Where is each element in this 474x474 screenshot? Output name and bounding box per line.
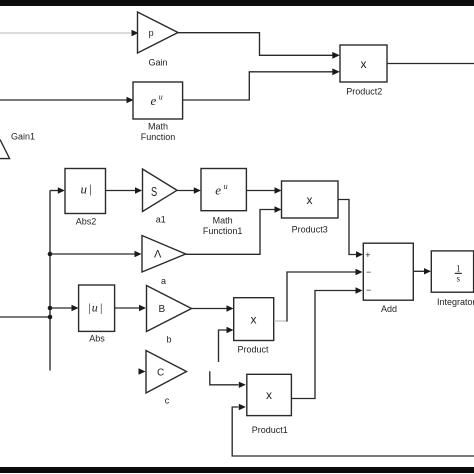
wire B output to Product input 1 [192,305,234,311]
wire bus to A [50,251,142,257]
svg-text:Product2: Product2 [346,87,382,97]
abs block Abs (|u|) [79,285,115,344]
wire Abs output to B [115,305,146,311]
gain block A (triangle lambda) [142,236,186,286]
junction dot A branch [48,252,53,257]
svg-text:B: B [159,304,166,315]
wire input to Gain [0,30,139,36]
wire left input to bus [0,316,50,318]
gain block C (triangle C) [146,351,187,406]
abs block Abs2 (u|) [65,169,106,227]
wire to Product1 input 1 [210,371,246,388]
svg-text:Integrator: Integrator [437,297,474,307]
wire input to Math Function [0,97,134,103]
top black border bar [0,0,474,6]
gain block a1 (triangle S) [143,169,178,225]
svg-text:|: | [89,181,92,196]
wire Math Function1 output to Product3 input 1 [246,187,281,193]
svg-text:p: p [149,28,154,38]
svg-text:Math: Math [148,122,168,132]
sum block Add [363,243,413,314]
svg-text:1: 1 [456,264,461,274]
svg-text:s: s [457,274,461,284]
svg-text:|: | [88,301,90,315]
wire a1 output to Math Function1 [177,187,201,193]
wire stub to Product input 2 [219,327,234,362]
svg-text:u: u [92,300,98,314]
wire Gain output to Product2 input 1 [178,33,340,59]
svg-text:|: | [100,301,102,315]
svg-text:e: e [151,93,157,108]
gain block Gain (triangle p) [138,12,179,68]
wire A output to Product3 input 2 [186,206,282,254]
svg-text:−: − [366,285,371,295]
wire feedback from right edge to Product1 input 2 [232,404,474,456]
svg-text:Add: Add [381,304,397,314]
svg-text:+: + [365,250,370,260]
svg-text:u: u [159,93,163,102]
gain block B (triangle B) [147,286,192,345]
arrowhead C input [139,368,146,374]
math function block Math Function (e^u) [133,82,183,142]
svg-text:Product1: Product1 [252,425,288,435]
wire bus to Abs2 [50,187,65,193]
svg-text:Gain1: Gain1 [11,132,35,142]
wire Product output to Add input 2 [274,269,363,322]
svg-text:Math: Math [213,216,233,226]
bottom black border bar [0,467,474,473]
product block Product2 [340,45,387,97]
node bus vertical line [49,191,51,371]
wire Add output to Integrator [414,268,432,274]
junction dot Abs branch [48,306,53,311]
svg-text:x: x [307,193,313,207]
gain block Gain1 (clipped at left edge) [0,132,35,159]
product block Product3 [282,181,339,234]
svg-text:Product3: Product3 [292,224,328,234]
svg-text:c: c [165,396,170,406]
wire bus to Abs [50,305,79,311]
svg-text:Product: Product [237,345,269,355]
svg-text:x: x [361,57,367,71]
svg-text:C: C [157,368,164,379]
svg-text:Λ: Λ [154,249,162,261]
svg-text:Abs: Abs [89,334,105,344]
wire Product3 output to Add input 1 [338,200,363,258]
svg-text:Gain: Gain [148,58,167,68]
svg-text:Abs2: Abs2 [76,216,97,226]
math function block Math Function1 (e^u) [201,169,246,236]
wire Math Function output to Product2 input 2 [183,68,340,100]
svg-text:x: x [251,313,257,327]
svg-text:x: x [266,388,272,402]
svg-text:e: e [215,183,221,198]
product block Product1 [247,374,292,435]
svg-text:b: b [166,335,171,345]
product block Product [234,298,274,355]
svg-text:u: u [81,182,88,197]
wire Product2 output to right edge [387,63,474,65]
integrator block Integrator (1/s) [431,251,474,307]
wire Product1 output to Add input 3 [291,287,362,398]
svg-text:S: S [151,184,157,199]
svg-text:Function1: Function1 [203,226,243,236]
wire Abs2 output to a1 [106,187,143,193]
svg-text:Function: Function [141,132,176,142]
svg-text:a1: a1 [156,215,166,225]
junction dot left input [48,315,53,320]
svg-text:u: u [224,182,228,191]
svg-text:−: − [366,267,371,277]
svg-text:a: a [161,276,166,286]
